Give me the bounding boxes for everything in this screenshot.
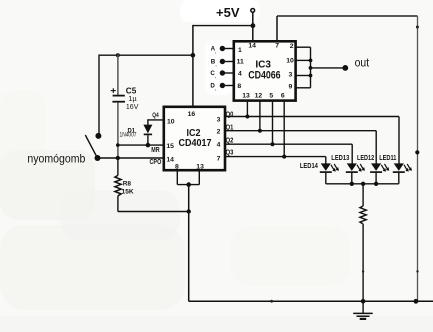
wire R8 bottom to ground drop (118, 211, 189, 213)
svg-text:4: 4 (217, 142, 221, 149)
svg-text:12: 12 (255, 92, 263, 99)
resistor R8 15K (115, 158, 134, 212)
wire IC3 pin6 column (283, 100, 285, 157)
svg-text:7: 7 (275, 42, 279, 49)
svg-text:CPO: CPO (150, 159, 162, 166)
wire output bus (310, 47, 312, 88)
svg-text:CD4066: CD4066 (248, 69, 280, 81)
svg-text:4: 4 (238, 71, 242, 78)
node mark on bottom rail (270, 300, 273, 303)
wire IC2 pin 13 ground stub (198, 170, 200, 185)
svg-text:nyomógomb: nyomógomb (27, 151, 85, 165)
wire out line (311, 67, 346, 69)
node bus pin3 (309, 74, 313, 78)
input D terminal (210, 82, 233, 91)
svg-text:Q0: Q0 (226, 111, 234, 118)
wire IC2 ground drop (188, 185, 190, 302)
wire IC2 pin 8 ground stub (176, 170, 178, 185)
node tick top of right rail (416, 26, 419, 29)
node ground junction (361, 299, 366, 304)
node MR junction on C5 line (116, 143, 120, 147)
svg-text:out: out (355, 55, 370, 69)
svg-text:Q4: Q4 (152, 112, 159, 119)
node on right rail (415, 150, 419, 154)
node IC2 ground junction (186, 182, 191, 187)
node CP0 junction on C5 line (116, 156, 120, 160)
svg-text:LED14: LED14 (300, 163, 318, 170)
svg-text:15K: 15K (122, 189, 134, 196)
input B terminal (211, 58, 234, 67)
diode D1 1N4007 (120, 119, 164, 145)
svg-text:Q2: Q2 (226, 138, 234, 145)
wire Q1 to LED12 (225, 131, 376, 164)
wire +5V drop to IC2 pin 16 (192, 25, 194, 107)
op IC3 CD4066 body (234, 41, 296, 100)
wire IC3 pin9 stub (296, 87, 311, 89)
svg-text:7: 7 (217, 155, 221, 162)
wire top ground rail (277, 15, 418, 17)
input A terminal (211, 46, 234, 55)
svg-text:11: 11 (237, 59, 244, 66)
+5V supply terminal (216, 5, 255, 20)
wire Q2 to LED13 (225, 144, 352, 163)
svg-text:R8: R8 (123, 180, 132, 187)
node tick on resistor wire (362, 270, 364, 272)
wire bottom ground rail (189, 300, 433, 302)
push button nyomogomb (27, 133, 101, 165)
svg-text:LED11: LED11 (379, 155, 396, 162)
wire down to push button (98, 55, 100, 136)
svg-text:2: 2 (290, 43, 294, 50)
node bottom right corner (414, 299, 419, 304)
node R8 ground junction (187, 209, 191, 213)
svg-text:8: 8 (237, 83, 241, 90)
wire IC3 pin2 stub (296, 46, 311, 48)
svg-text:3: 3 (289, 72, 293, 79)
svg-text:3: 3 (217, 116, 221, 123)
node bus pin10 (309, 59, 313, 63)
svg-text:+5V: +5V (216, 5, 240, 20)
LED12 (357, 155, 389, 184)
node out terminal (342, 65, 348, 71)
wire IC3 pin12 column (259, 100, 261, 131)
svg-text:Q3: Q3 (226, 150, 234, 157)
svg-text:14: 14 (166, 156, 174, 163)
svg-text:MR: MR (151, 147, 159, 154)
wire +5V horizontal to left (193, 25, 253, 27)
op IC2 CD4017 body (164, 107, 225, 171)
wire +5V stem down to IC3 pin 14 (252, 12, 254, 40)
node bus resistor tap (361, 182, 365, 186)
node LED13 bus junction (350, 182, 354, 186)
svg-text:LED13: LED13 (331, 155, 349, 162)
wire VDD rail left (99, 54, 193, 56)
svg-text:CD4017: CD4017 (179, 137, 212, 149)
input C terminal (210, 70, 233, 79)
node +5V junction (251, 23, 256, 28)
svg-text:16: 16 (188, 111, 196, 118)
wire CP0 line from button to IC2 pin 14 (98, 157, 164, 159)
svg-text:16V: 16V (126, 102, 138, 111)
svg-text:9: 9 (289, 84, 293, 91)
wire Q3 to LED14 (225, 157, 326, 164)
svg-text:5: 5 (269, 92, 273, 99)
node Q0 pin13 junction (245, 115, 249, 119)
svg-text:13: 13 (196, 163, 204, 170)
node Q1 pin12 junction (258, 129, 262, 133)
svg-text:10: 10 (167, 118, 175, 125)
svg-text:LED12: LED12 (357, 155, 374, 162)
node diode-MR junction (146, 143, 151, 148)
svg-text:10: 10 (286, 57, 294, 64)
wire IC3 pin13 column (246, 100, 248, 117)
LED11 (379, 155, 412, 184)
wire ground U bottom (177, 184, 199, 186)
node tick on right rail (416, 270, 418, 272)
svg-text:1N4007: 1N4007 (120, 131, 137, 138)
svg-text:15: 15 (166, 143, 174, 150)
wire IC3 pin 7 up (276, 16, 278, 41)
node LED12 bus junction (374, 182, 378, 186)
wire MR line to IC2 pin 15 (118, 144, 164, 146)
node bus out tap (309, 66, 313, 70)
svg-text:13: 13 (242, 92, 250, 99)
ground (353, 301, 373, 319)
wire IC3 pin10 stub (296, 59, 311, 61)
svg-text:2: 2 (217, 129, 221, 136)
wire Q0 to LED11 (225, 117, 399, 164)
wire IC3 pin5 column (272, 100, 274, 144)
node VDD junction (191, 53, 196, 58)
LED13 (331, 155, 365, 184)
svg-text:6: 6 (281, 92, 285, 99)
resistor LED series (360, 184, 366, 301)
capacitor C5 (111, 55, 139, 159)
wire right ground rail (417, 16, 419, 301)
LED14 (300, 163, 339, 184)
wire LED cathode bus (326, 183, 399, 185)
node C5 top junction (116, 53, 120, 57)
node Q3 pin6 junction (282, 155, 286, 159)
wire IC3 pin3 stub (296, 75, 311, 77)
svg-text:8: 8 (175, 163, 179, 170)
svg-text:1: 1 (238, 47, 242, 54)
svg-text:14: 14 (248, 42, 256, 49)
node Q2 pin5 junction (271, 142, 275, 146)
